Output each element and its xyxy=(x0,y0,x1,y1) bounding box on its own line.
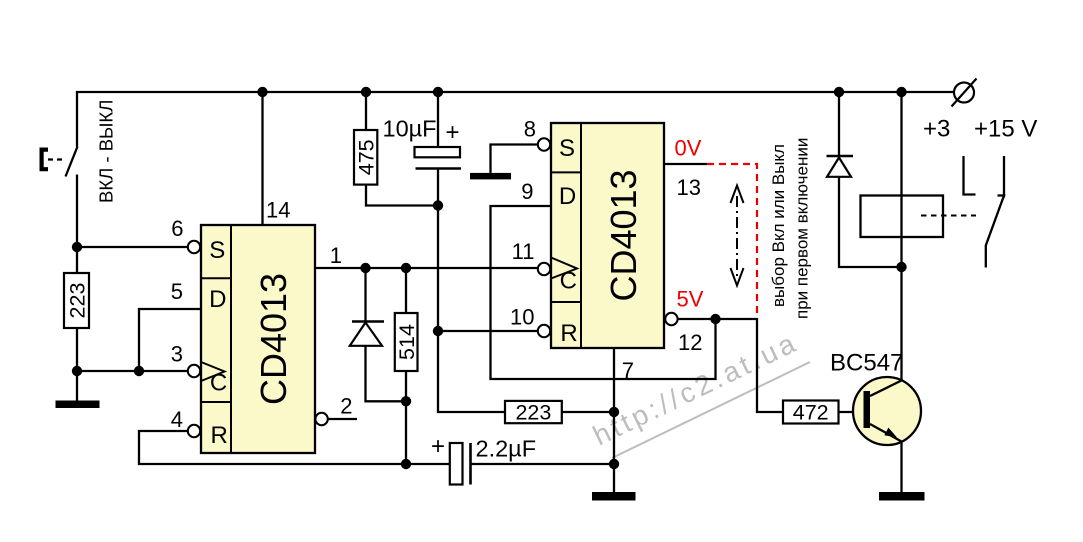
svg-text:выбор Вкл или Выкл: выбор Вкл или Выкл xyxy=(769,144,788,307)
svg-text:+15 V: +15 V xyxy=(974,116,1037,143)
svg-text:BC547: BC547 xyxy=(830,350,903,377)
svg-text:4: 4 xyxy=(171,407,183,432)
svg-text:9: 9 xyxy=(521,179,533,204)
svg-text:R: R xyxy=(211,422,228,449)
svg-text:2: 2 xyxy=(340,394,352,419)
svg-text:ВКЛ - ВЫКЛ: ВКЛ - ВЫКЛ xyxy=(96,100,117,203)
svg-text:223: 223 xyxy=(66,283,90,319)
svg-text:223: 223 xyxy=(515,401,551,425)
svg-text:2.2µF: 2.2µF xyxy=(476,436,537,462)
svg-text:D: D xyxy=(559,183,576,210)
svg-text:10µF: 10µF xyxy=(383,116,437,142)
svg-text:S: S xyxy=(209,237,225,264)
svg-text:+3: +3 xyxy=(923,116,950,143)
svg-text:+: + xyxy=(445,119,459,146)
svg-text:514: 514 xyxy=(395,324,419,360)
svg-text:12: 12 xyxy=(678,330,702,355)
svg-text:CD4013: CD4013 xyxy=(603,169,644,301)
svg-text:5V: 5V xyxy=(677,287,704,312)
svg-text:475: 475 xyxy=(355,139,379,175)
svg-text:8: 8 xyxy=(524,117,536,142)
svg-text:0V: 0V xyxy=(675,136,702,161)
svg-text:+: + xyxy=(431,433,445,460)
svg-text:472: 472 xyxy=(793,401,829,425)
svg-text:R: R xyxy=(560,320,577,347)
svg-text:S: S xyxy=(559,135,575,162)
svg-text:при первом включении: при первом включении xyxy=(793,138,812,319)
svg-text:CD4013: CD4013 xyxy=(253,273,294,405)
svg-text:14: 14 xyxy=(266,198,290,223)
svg-text:11: 11 xyxy=(512,239,535,264)
svg-text:1: 1 xyxy=(330,243,342,268)
svg-text:6: 6 xyxy=(171,216,183,241)
svg-text:3: 3 xyxy=(171,342,183,367)
svg-text:13: 13 xyxy=(677,175,701,200)
svg-text:D: D xyxy=(209,286,226,313)
svg-text:C: C xyxy=(560,268,577,295)
svg-text:5: 5 xyxy=(171,279,183,304)
svg-text:7: 7 xyxy=(622,358,634,383)
svg-text:10: 10 xyxy=(510,305,534,330)
svg-text:C: C xyxy=(210,370,227,397)
